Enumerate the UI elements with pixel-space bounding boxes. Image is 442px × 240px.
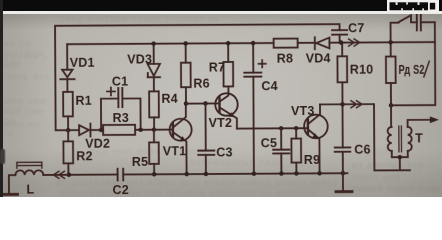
junction rail2/R7 xyxy=(226,41,231,46)
junction C3/ground xyxy=(204,172,209,177)
svg-text:C6: C6 xyxy=(354,143,370,157)
svg-text:R8: R8 xyxy=(277,52,293,66)
zener diode VD3 xyxy=(127,44,160,92)
wire VT3 collector line xyxy=(320,104,410,171)
resistor R6 xyxy=(181,43,210,103)
junction R5/ground rail xyxy=(152,172,157,177)
junction transformer bottom xyxy=(398,155,403,160)
transistor VT3 xyxy=(291,104,328,174)
switch S2 xyxy=(390,15,416,42)
svg-text:VD4: VD4 xyxy=(306,51,331,65)
svg-text:C5: C5 xyxy=(261,136,277,150)
capacitor C1 xyxy=(101,74,141,130)
svg-text:C4: C4 xyxy=(261,79,277,93)
svg-text:VD1: VD1 xyxy=(70,56,95,70)
black header bar xyxy=(0,0,442,11)
junction rail2/C7/R10 xyxy=(339,40,344,45)
wire ground rail xyxy=(43,173,347,175)
junction C3 tap xyxy=(203,101,208,106)
resistor R3 xyxy=(101,111,154,135)
dark smudge left edge xyxy=(0,149,5,164)
capacitor C7 xyxy=(332,21,365,42)
svg-text:R3: R3 xyxy=(113,111,129,125)
capacitor C6 xyxy=(334,104,370,173)
svg-text:VT1: VT1 xyxy=(163,144,187,158)
connector arrows collector line xyxy=(351,101,362,108)
svg-text:L: L xyxy=(26,183,34,197)
svg-text:VD3: VD3 xyxy=(127,52,152,66)
resistor R9 xyxy=(291,128,320,173)
wire rail right of VD4 xyxy=(329,41,434,44)
svg-text:R4: R4 xyxy=(161,92,177,106)
diode VD4 xyxy=(306,37,331,65)
ground right xyxy=(336,173,352,191)
capacitor C5 xyxy=(261,128,290,173)
transistor VT2 xyxy=(208,86,237,130)
svg-text:C1: C1 xyxy=(112,75,128,89)
node A junction xyxy=(66,128,71,133)
junction rail2/R6 xyxy=(183,41,188,46)
svg-text:R10: R10 xyxy=(350,63,374,77)
junction VT3 emitter/ground xyxy=(317,171,322,176)
diode VD1 xyxy=(60,44,95,92)
svg-text:C2: C2 xyxy=(112,183,128,197)
ghost bleed-through text xyxy=(4,52,52,70)
junction VT1 emitter/ground xyxy=(184,172,189,177)
wire VT1 base xyxy=(154,129,173,131)
junction C5 tap xyxy=(279,126,284,131)
node D junction (R4/R5/base) xyxy=(152,127,157,132)
svg-text:C3: C3 xyxy=(216,145,232,159)
junction R9 tap xyxy=(294,126,299,131)
connector arrows on supply rail xyxy=(349,39,360,46)
capacitor of S2 branch xyxy=(417,15,435,31)
svg-text:R6: R6 xyxy=(193,77,209,91)
svg-text:C7: C7 xyxy=(348,21,364,35)
resistor R8 xyxy=(274,39,298,66)
connector arrows antenna xyxy=(53,171,64,178)
wire rail right of R8 xyxy=(298,42,315,44)
resistor Rd xyxy=(386,42,430,105)
wire top rail with left drop to node A xyxy=(55,24,339,130)
diode VD2 xyxy=(68,124,110,151)
junction rail2/C4 xyxy=(251,41,256,46)
junction Rd bottom xyxy=(389,103,394,108)
wire VT2 emitter to VT3 base xyxy=(237,127,308,129)
resistor R2 xyxy=(63,130,92,175)
svg-text:VT2: VT2 xyxy=(209,116,233,130)
capacitor C2 xyxy=(112,169,129,197)
junction R9/ground xyxy=(294,171,299,176)
transformer T xyxy=(388,105,424,170)
svg-text:R7: R7 xyxy=(209,60,225,74)
svg-text:T: T xyxy=(415,131,423,145)
junction rail2/Rd xyxy=(388,40,393,45)
junction C6/ground xyxy=(341,171,346,176)
resistor R7 xyxy=(209,43,234,86)
node C junction (C1 right) xyxy=(138,128,143,133)
resistor R4 xyxy=(149,91,178,129)
junction C5/ground xyxy=(279,171,284,176)
wire to VT2 base xyxy=(186,102,219,104)
svg-text:R9: R9 xyxy=(304,153,320,167)
resistor R1 xyxy=(63,92,92,130)
svg-text:VD2: VD2 xyxy=(85,137,110,151)
white page-edge strip xyxy=(0,11,442,14)
svg-text:R5: R5 xyxy=(132,155,148,169)
ground left xyxy=(2,193,17,196)
wire +rail (second rail) xyxy=(67,43,273,44)
inductor screen/core xyxy=(17,162,42,168)
wire output arrow xyxy=(408,116,439,126)
transistor VT1 xyxy=(162,104,191,175)
junction R2/ground rail xyxy=(67,173,72,178)
svg-text:R2: R2 xyxy=(76,149,92,163)
svg-text:VT3: VT3 xyxy=(291,104,315,118)
resistor R10 xyxy=(337,42,373,104)
junction R10/collector line xyxy=(340,102,345,107)
junction rail2/VD3 xyxy=(151,41,156,46)
node B junction (R3 left / C1 left) xyxy=(99,128,104,133)
inductor L xyxy=(9,170,44,196)
junction C4/ground xyxy=(252,171,257,176)
resistor R5 xyxy=(132,130,159,175)
svg-text:R1: R1 xyxy=(75,94,91,108)
svg-text:Рд S2: Рд S2 xyxy=(399,63,425,77)
capacitor C3 xyxy=(198,103,233,174)
capacitor C4 xyxy=(244,43,278,174)
junction R6/VT1 collector xyxy=(184,101,189,106)
black left page edge xyxy=(0,0,3,197)
white caption box in bar xyxy=(387,0,439,12)
wire right side loop xyxy=(391,22,436,105)
